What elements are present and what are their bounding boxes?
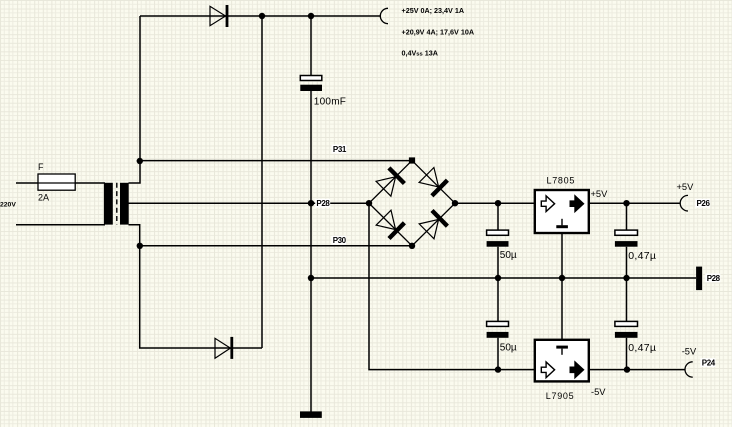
- ground: [300, 411, 322, 418]
- svg-text:P24: P24: [702, 359, 716, 368]
- node P31 left junction: [137, 158, 143, 164]
- wire 220V primary top: [16, 182, 105, 184]
- wire net P30: [140, 245, 412, 247]
- fuse F1: [38, 174, 75, 190]
- diode D2: [215, 337, 233, 359]
- connector P26: [680, 195, 688, 211]
- connector P24: [685, 362, 693, 377]
- wire U2 output to P24: [589, 369, 685, 371]
- svg-text:0,47µ: 0,47µ: [628, 342, 656, 354]
- wire C2 branch upper: [497, 203, 499, 369]
- node bridge top: [409, 157, 415, 163]
- wire bridge output to U1 input: [455, 202, 535, 204]
- regulator U1 L7805: [535, 190, 589, 233]
- svg-text:P31: P31: [333, 145, 347, 154]
- node U1 input junction: [495, 200, 501, 206]
- svg-text:+5V: +5V: [591, 189, 609, 199]
- node rail left junction: [308, 275, 314, 281]
- capacitor C1 100mF: [300, 76, 322, 92]
- capacitor C3 50u: [487, 321, 509, 337]
- label pin P24 background: [700, 358, 715, 367]
- svg-text:220V: 220V: [0, 202, 16, 209]
- node rail C2 junction: [495, 275, 501, 281]
- node P28 center junction: [308, 200, 314, 206]
- diode B1b (bridge): [419, 168, 447, 196]
- wire bridge diamond: [369, 161, 455, 246]
- svg-text:P28: P28: [316, 199, 330, 208]
- wire top rail: [140, 15, 380, 17]
- svg-text:2A: 2A: [38, 192, 49, 202]
- node top-loop junction: [259, 13, 265, 19]
- svg-text:+20,9V 4A; 17,6V 10A: +20,9V 4A; 17,6V 10A: [402, 27, 475, 36]
- label pin P28 background: [705, 274, 720, 283]
- svg-text:L7905: L7905: [546, 391, 575, 401]
- wire regulator ground stubs x=562: [561, 233, 563, 340]
- svg-text:-5V: -5V: [682, 346, 697, 356]
- diode B1a (bridge): [376, 168, 404, 196]
- node rail C4 junction: [623, 275, 629, 281]
- svg-text:P30: P30: [333, 236, 347, 245]
- transformer TR1 secondary winding: [120, 183, 129, 225]
- node U1 output junction: [623, 200, 629, 206]
- wire center vertical above C1: [310, 16, 312, 75]
- wire middle ground rail to P28: [311, 277, 696, 279]
- wire U1 output to P26: [589, 202, 681, 204]
- connector X1 top output: [380, 8, 388, 23]
- svg-text:0,47µ: 0,47µ: [628, 250, 656, 262]
- label pin P26 background: [695, 199, 710, 208]
- label net P28 center background: [315, 199, 330, 208]
- svg-text:F: F: [38, 162, 44, 172]
- node bridge left: [366, 200, 372, 206]
- wire net P28 center tap: [129, 202, 370, 204]
- wire C4 branch upper: [626, 203, 628, 369]
- connector P28 pad: [696, 267, 702, 291]
- wire net P31: [140, 160, 412, 162]
- svg-text:P28: P28: [707, 274, 721, 283]
- label net P30 background: [331, 236, 346, 245]
- node P30 left junction: [137, 243, 143, 249]
- diode D1: [210, 5, 228, 27]
- transformer TR1 primary winding: [104, 183, 113, 225]
- wire transformer bottom tap down to bottom loop: [129, 225, 263, 348]
- label net P31 background: [332, 145, 347, 154]
- svg-text:+5V: +5V: [677, 182, 695, 192]
- node bridge right: [452, 200, 458, 206]
- regulator U2 L7905: [535, 340, 589, 382]
- capacitor C5 0,47u: [615, 321, 638, 337]
- node U2 input junction: [495, 366, 501, 372]
- svg-text:+25V 0A; 23,4V 1A: +25V 0A; 23,4V 1A: [402, 6, 465, 15]
- svg-text:100mF: 100mF: [314, 96, 346, 107]
- wire 220V primary bottom: [16, 224, 105, 226]
- svg-text:L7805: L7805: [547, 175, 576, 185]
- wire left vertical to transformer top tap: [129, 16, 141, 183]
- diode B1d (bridge): [419, 211, 447, 239]
- node bridge bottom: [409, 243, 415, 249]
- wire center vertical below C1 to ground: [310, 91, 312, 412]
- svg-text:50µ: 50µ: [500, 250, 517, 261]
- node rail U-gnd junction: [559, 275, 565, 281]
- diode B1c (bridge): [376, 210, 404, 238]
- node cap junction top: [308, 13, 314, 19]
- capacitor C4 0,47u: [615, 230, 638, 247]
- capacitor C2 50u: [487, 230, 509, 247]
- svg-text:P26: P26: [697, 199, 711, 208]
- wire bridge minus down and along to U2 input: [369, 203, 535, 369]
- svg-text:50µ: 50µ: [500, 342, 517, 353]
- svg-text:-5V: -5V: [591, 387, 606, 397]
- wire right vertical of bottom loop: [261, 16, 263, 348]
- transformer TR1 core: [116, 183, 118, 225]
- node U2 output junction: [624, 366, 630, 372]
